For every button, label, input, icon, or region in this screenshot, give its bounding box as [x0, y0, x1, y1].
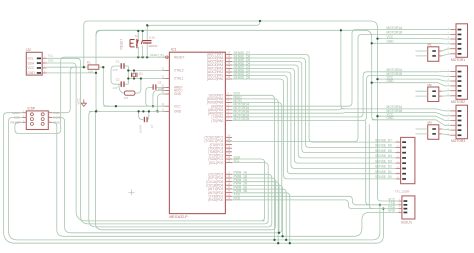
svg-text:I2C: I2C	[26, 48, 32, 52]
junction PD2 at bundle	[289, 242, 291, 244]
svg-text:SENSE_D3: SENSE_D3	[375, 159, 392, 163]
pin (TXD)PD1 (pin 15) of IC1	[225, 195, 232, 197]
pin (ADC0)PA0 (pin 40) of IC1	[225, 78, 232, 80]
wire MOTOR1A from IC PB4 to motor1 row1	[232, 30, 450, 107]
capacitor C1 plates	[121, 63, 122, 69]
junction VCC W1 at y67.2	[83, 66, 85, 68]
wire AREF down loop	[146, 88, 150, 107]
wire XTAL1 from C2 node to IC	[128, 78, 165, 80]
pin (INT1)PD3 (pin 17) of IC1	[225, 188, 232, 190]
pad 3 of TO_LINE	[402, 152, 406, 154]
pin VCC (pin 10) of IC1	[163, 105, 170, 107]
wire RXD from IC to DEBUG	[232, 200, 398, 209]
pin (TOSC1)PC6 (pin 28) of IC1	[225, 140, 232, 142]
connector MOTOR1 body	[456, 24, 468, 58]
svg-text:M3: M3	[428, 121, 432, 125]
svg-text:GND: GND	[388, 209, 396, 213]
junction VCC/MOTOR2	[376, 78, 378, 80]
junction crystal bottom	[133, 77, 135, 79]
pad of MOTOR3	[458, 110, 462, 112]
wire crystal node vertical	[127, 66, 129, 84]
pin (SDA)PC1 (pin 23) of IC1	[225, 158, 232, 160]
svg-text:XTAL2: XTAL2	[174, 69, 184, 73]
pad TXD of DEBUG	[404, 204, 408, 206]
pad of MOTOR1	[458, 29, 462, 31]
svg-text:SENSE_D6: SENSE_D6	[375, 144, 392, 148]
pin (SS)PB4 (pin 5) of IC1	[225, 105, 232, 107]
junction C7 left	[137, 110, 139, 112]
junction VCC/MOTOR3	[376, 115, 378, 117]
junction top rail branch	[340, 29, 342, 31]
wire VCC rail into IC	[103, 105, 165, 107]
svg-text:GND: GND	[387, 79, 395, 83]
wire bundle row y229.8 left riser	[95, 112, 271, 230]
junction C14 rail joins VCC top	[259, 20, 261, 22]
wire spare vertical to RXD row	[369, 124, 373, 208]
svg-text:SCL: SCL	[27, 57, 34, 61]
pin (RXD)PD0 (pin 14) of IC1	[225, 199, 232, 201]
svg-text:RESET: RESET	[10, 120, 20, 124]
wire W3 switch supply	[96, 30, 143, 36]
pin (ICP1)PD6 (pin 20) of IC1	[225, 177, 232, 179]
junction GND pin at GND rail	[156, 110, 158, 112]
capacitor C5 plates on AREF	[153, 84, 154, 89]
pin (ADC6)PA6 (pin 34) of IC1	[225, 57, 232, 59]
connector M1 body	[428, 47, 439, 62]
wire MOTOR1B from IC PC6 to motor1 row2	[232, 34, 450, 141]
pad of MOTOR2	[458, 85, 462, 87]
svg-text:(SCL)PC0: (SCL)PC0	[209, 161, 224, 165]
svg-text:C5: C5	[158, 80, 162, 84]
wire SCK drop from IC to bundle	[232, 95, 275, 240]
junction switch lead B	[141, 30, 143, 32]
svg-text:SENSE_D1: SENSE_D1	[375, 170, 392, 174]
svg-text:RESET: RESET	[120, 39, 124, 50]
wire PD7 from IC down to bundle row 3	[232, 174, 272, 227]
wire SDA from I2C around bottom to IC	[47, 63, 265, 221]
capacitor C14 plates	[143, 40, 152, 41]
wire GND pin y94 riser	[153, 94, 166, 111]
pad VCC of DEBUG	[404, 200, 408, 202]
pad of M1	[432, 50, 436, 52]
pin (TMS)PC3 (pin 25) of IC1	[225, 151, 232, 153]
pad of M2	[432, 95, 436, 97]
wire ICSP VCC riser to VCC net	[52, 67, 76, 113]
svg-text:M2: M2	[428, 83, 432, 87]
pad of MOTOR1	[458, 53, 462, 55]
junction VCC/MOTOR1	[376, 37, 378, 39]
wire MISO drop from IC to bundle	[232, 99, 278, 243]
pad of MOTOR2	[458, 76, 462, 78]
pin (INT0)PD2 (pin 16) of IC1	[225, 192, 232, 194]
wire XTAL2 from C1 node to IC	[128, 70, 165, 72]
pin (T0)PB0 (pin 1) of IC1	[225, 120, 232, 122]
ICSP pin pads row 1	[30, 113, 33, 116]
wire SENSE_D6 from IC PA6 to line connector	[232, 58, 396, 147]
connector M2 body	[428, 87, 439, 102]
wire C1 right lead	[124, 65, 128, 67]
pad GND of DEBUG	[404, 212, 408, 214]
pin (AIN1)PB3 (pin 4) of IC1	[225, 109, 232, 111]
crystal Q1 body	[130, 73, 133, 78]
wire M2 to MOTOR2 pin5	[442, 90, 451, 93]
pin XTAL2 (pin 12) of IC1	[163, 70, 170, 72]
wire SCL from I2C around bottom to IC	[47, 58, 265, 224]
wire SENSE_D2 from IC PA2 to line connector	[232, 72, 396, 168]
wire ICSP GND down to bundle and to DEBUG GND	[52, 122, 398, 236]
svg-text:GND: GND	[174, 110, 182, 114]
junction PD3 at bundle	[285, 239, 287, 241]
junction PD5 at bundle	[278, 232, 280, 234]
wire C14 top lead	[147, 21, 260, 40]
connector SV1 I2C body	[26, 52, 42, 75]
junction switch lead A	[137, 30, 139, 32]
junction PD4 at bundle	[281, 235, 283, 237]
wire SENSE_D5 from IC PA5 to line connector	[232, 62, 396, 153]
pad of MOTOR1	[458, 38, 462, 40]
svg-text:SDA: SDA	[27, 61, 35, 65]
junction MISO at bundle	[277, 242, 279, 244]
wire C14 bottom lead	[146, 43, 148, 57]
junction RESET/switch right	[141, 56, 143, 58]
svg-text:MOTOR2: MOTOR2	[451, 100, 465, 104]
pin (OC1B)PD4 (pin 18) of IC1	[225, 184, 232, 186]
pad of M1	[432, 55, 436, 57]
svg-text:DEBUG: DEBUG	[401, 221, 413, 225]
pin (TDI)PC5 (pin 27) of IC1	[225, 144, 232, 146]
svg-text:1M: 1M	[124, 96, 129, 100]
svg-text:VCC: VCC	[53, 111, 60, 115]
pin (ADC3)PA3 (pin 37) of IC1	[225, 68, 232, 70]
origin cross mark	[128, 189, 134, 195]
pad of MOTOR3	[458, 129, 462, 131]
pad of MOTOR2	[458, 80, 462, 82]
junction R2 right	[140, 77, 142, 79]
svg-text:(RXD)PD0: (RXD)PD0	[208, 198, 223, 202]
svg-text:MOTOR1: MOTOR1	[451, 58, 465, 62]
ICSP pin pads row 3	[30, 122, 33, 125]
wire switch bottom leads	[138, 46, 142, 58]
wire decoupling cap loop	[139, 111, 149, 119]
resistor R1 body	[88, 65, 99, 69]
pin (ADC4)PA4 (pin 36) of IC1	[225, 64, 232, 66]
pin XTAL1 (pin 13) of IC1	[163, 78, 170, 80]
junction decouple mid	[142, 110, 144, 112]
pin (OC2)PD7 (pin 21) of IC1	[225, 173, 232, 175]
svg-text:C14: C14	[149, 36, 155, 40]
junction RESET/switch left	[137, 56, 139, 58]
pin (ADC5)PA5 (pin 35) of IC1	[225, 61, 232, 63]
wire PD6 from IC down to bundle row 4	[232, 178, 275, 230]
svg-text:VCC: VCC	[76, 97, 80, 104]
junction crystal top	[133, 69, 135, 71]
svg-text:C2: C2	[116, 78, 120, 82]
pad 2 of TO_LINE	[402, 147, 406, 149]
pad of MOTOR3	[458, 134, 462, 136]
wire MOTOR3B from IC PB2 to motor3 row2	[232, 113, 450, 116]
svg-text:VCC: VCC	[387, 35, 394, 39]
svg-text:SENSE_D4: SENSE_D4	[375, 154, 392, 158]
pad of MOTOR3	[458, 115, 462, 117]
svg-text:VCC: VCC	[27, 66, 35, 70]
pad of M3	[432, 133, 436, 135]
wire MOTOR2A from IC PB1 to motor2 row1	[232, 72, 450, 117]
pin AREF (pin 32) of IC1	[163, 87, 170, 89]
pad of MOTOR2	[458, 71, 462, 73]
wire TXD from IC to DEBUG	[232, 196, 398, 205]
wire SENSE_D7 from IC PA7 to line connector	[232, 55, 396, 143]
resistor R2 1M leads	[119, 79, 141, 94]
junction XTAL1 node	[127, 77, 129, 79]
wire VCC horizontal y67.2 I2C to R1 to RESET pullup	[47, 66, 104, 68]
junction RESET/C14	[146, 56, 148, 58]
wire crystal left gnd loop	[111, 66, 121, 84]
wire SENSE_D0 from IC PA0 to line connector	[232, 79, 396, 179]
wire PD3 from IC down to bundle row 7	[232, 189, 286, 240]
connector DEBUG body	[402, 196, 415, 219]
wire SENSE_D3 from IC PA3 to line connector	[232, 69, 396, 164]
wire GND branch to MOTOR1	[372, 42, 451, 45]
svg-text:MOTOR1A: MOTOR1A	[387, 26, 404, 30]
wire GND branch to MOTOR2	[372, 83, 451, 86]
wire MOTOR2B from IC PB0 to motor2 row2	[232, 76, 450, 121]
capacitor C7 plates	[144, 117, 145, 122]
pad of MOTOR2	[458, 90, 462, 92]
wire SDA from IC down to bundle row 1	[232, 159, 265, 221]
svg-text:SDA: SDA	[48, 59, 54, 63]
svg-text:TTL_232R: TTL_232R	[395, 190, 410, 194]
svg-text:R1: R1	[87, 60, 91, 64]
svg-text:C1: C1	[116, 59, 120, 63]
pin (OC1A)PD5 (pin 19) of IC1	[225, 181, 232, 183]
junction VCC rail a	[115, 105, 117, 107]
switch S1 RESET pushbutton glyph	[130, 40, 143, 47]
svg-text:GND: GND	[387, 116, 395, 120]
connector MOTOR2 body	[456, 66, 468, 100]
wire VCC branch to MOTOR2	[378, 79, 451, 81]
wire SCL from IC down to bundle row 2	[232, 163, 268, 224]
pad of MOTOR1	[458, 43, 462, 45]
pad of MOTOR2	[458, 95, 462, 97]
wire RESET pullup vertical x103.3	[103, 67, 110, 106]
pin (SCL)PC0 (pin 22) of IC1	[225, 162, 232, 164]
pin (TDO)PC4 (pin 26) of IC1	[225, 147, 232, 149]
junction GND/MOTOR1	[371, 42, 373, 44]
junction C14 top corner	[146, 24, 148, 26]
junction XTAL2 node	[127, 69, 129, 71]
pin (AIN0)PB2 (pin 3) of IC1	[225, 112, 232, 114]
junction AVCC at VCC rail	[152, 105, 154, 107]
junction RXD riser at DEBUG	[382, 207, 384, 209]
wire AREF cap lead	[149, 87, 165, 89]
svg-text:100NF: 100NF	[139, 124, 143, 133]
wire M2 feeders from left	[416, 91, 428, 96]
junction TXD riser at DEBUG	[379, 204, 381, 206]
wire vertical branch from GND top rail to motor3 row jog	[341, 30, 345, 109]
wire M1 to MOTOR1 pin6	[442, 54, 451, 56]
junction GND W2 at rail	[95, 110, 97, 112]
wire SENSE_D1 from IC PA1 to line connector	[232, 76, 396, 174]
svg-text:SCL: SCL	[48, 54, 54, 58]
svg-text:GND: GND	[387, 40, 395, 44]
svg-text:VCC: VCC	[174, 104, 181, 108]
pin AVCC (pin 30) of IC1	[163, 90, 170, 92]
pad of MOTOR3	[458, 120, 462, 122]
ICSP pin pads row 2	[30, 118, 33, 121]
svg-text:Q1: Q1	[139, 72, 143, 76]
junction bundle GND riser	[95, 110, 97, 112]
svg-text:SENSE_D2: SENSE_D2	[375, 165, 392, 169]
wire PD5 from IC down to bundle row 5	[232, 182, 279, 233]
pad 6 of TO_LINE	[402, 168, 406, 170]
svg-text:SENSE_D0: SENSE_D0	[375, 175, 392, 179]
wire VCC top rail W1	[84, 21, 399, 201]
junction C7 right	[148, 110, 150, 112]
pin (MISO)PB6 (pin 7) of IC1	[225, 98, 232, 100]
junction GND/MOTOR2	[371, 82, 373, 84]
svg-text:GND: GND	[27, 71, 35, 75]
resistor R2 body	[124, 91, 134, 95]
wire M1 to MOTOR1 pin5	[442, 49, 451, 51]
pin GND (pin 11) of IC1	[163, 110, 170, 112]
svg-text:XTAL1: XTAL1	[174, 77, 184, 81]
wire PD2 from IC down to bundle row 8	[232, 193, 290, 243]
svg-text:IC1: IC1	[171, 48, 177, 52]
pad 4 of TO_LINE	[402, 157, 406, 159]
pin (TCK)PC2 (pin 24) of IC1	[225, 154, 232, 156]
svg-text:(ADC0)PA0: (ADC0)PA0	[207, 77, 224, 81]
pin (ADC1)PA1 (pin 39) of IC1	[225, 75, 232, 77]
pad of M2	[432, 90, 436, 92]
svg-text:SENSE_D5: SENSE_D5	[375, 149, 392, 153]
wire SCK left loop to IC	[9, 118, 380, 240]
svg-text:22P: 22P	[113, 68, 118, 72]
pad 7 of TO_LINE	[402, 173, 406, 175]
svg-text:RESET_B: RESET_B	[150, 53, 162, 57]
svg-text:S1: S1	[135, 34, 139, 38]
wire M2 to MOTOR2 pin6	[442, 95, 451, 97]
pad 8 of TO_LINE	[402, 178, 406, 180]
pin (TOSC2)PC7 (pin 29) of IC1	[225, 136, 232, 138]
wire GND branch to MOTOR3	[372, 120, 451, 126]
pad of MOTOR3	[458, 125, 462, 127]
wire C2 right lead	[124, 83, 128, 85]
svg-text:MOTOR3: MOTOR3	[451, 139, 465, 143]
svg-text:ICSP: ICSP	[28, 107, 36, 111]
svg-text:GND: GND	[174, 92, 182, 96]
pin (T1)PB1 (pin 2) of IC1	[225, 116, 232, 118]
wire M3 to MOTOR3 pin6	[442, 134, 451, 135]
wire AVCC from VCC rail	[153, 91, 166, 107]
VCC supply arrow symbol	[81, 100, 86, 107]
pad 1 of TO_LINE	[402, 141, 406, 143]
junction SCK at bundle	[273, 239, 275, 241]
svg-text:(T0)PB0: (T0)PB0	[211, 119, 223, 123]
wire SENSE_D4 from IC PA4 to line connector	[232, 65, 396, 158]
pad of MOTOR1	[458, 34, 462, 36]
wire bundle row y226.9 left riser to GND rail	[89, 111, 268, 226]
svg-text:SENSE_D7: SENSE_D7	[375, 138, 392, 142]
capacitor C2 plates	[121, 81, 122, 87]
wire M1 feeders from left	[416, 51, 428, 56]
wire I2C GND to W2	[47, 72, 97, 74]
crystal Q1 leads	[133, 71, 135, 79]
connector M3 body	[428, 125, 439, 140]
pin RESET (pin 9) of IC1	[163, 56, 170, 58]
junction pullup top	[102, 66, 104, 68]
wire RESET net from IC to switch and around to ICSP	[15, 57, 166, 133]
wire switch top to GND wire W3	[138, 31, 142, 40]
wire M3 to MOTOR3 pin5	[442, 129, 451, 130]
wire PD4 from IC down to bundle row 6	[232, 185, 283, 236]
wire GND rail into IC	[89, 110, 166, 112]
connector TO_LINE body	[401, 137, 415, 183]
pin (SCK)PB7 (pin 8) of IC1	[225, 94, 232, 96]
svg-text:RESET: RESET	[174, 55, 185, 59]
svg-text:M1: M1	[428, 43, 432, 47]
wire MISO big left loop to IC	[4, 113, 384, 244]
connector MOTOR3 body	[456, 105, 468, 139]
pin (MOSI)PB5 (pin 6) of IC1	[225, 102, 232, 104]
wire M3 feeders from left	[416, 129, 428, 134]
connector ICSP body	[26, 111, 48, 130]
wire MOTOR3A from IC PB3 to motor3 row1	[232, 109, 450, 111]
pad of M3	[432, 128, 436, 130]
junction I2C GND at W2	[95, 72, 97, 74]
RESET pin inversion bubble	[166, 56, 169, 59]
pin (ADC2)PA2 (pin 38) of IC1	[225, 71, 232, 73]
svg-text:100NF: 100NF	[148, 44, 157, 48]
svg-text:C7: C7	[150, 124, 154, 128]
wire MOSI from ICSP down to bundle to IC	[52, 103, 281, 233]
pin GND (pin 31) of IC1	[163, 93, 170, 95]
microcontroller IC1 body	[169, 52, 225, 213]
pad of MOTOR1	[458, 48, 462, 50]
wire spare vertical to TXD row	[366, 121, 370, 205]
pad RXD of DEBUG	[404, 208, 408, 210]
svg-text:22P: 22P	[113, 86, 118, 90]
pin (ADC7)PA7 (pin 33) of IC1	[225, 54, 232, 56]
wire GND top rail W2	[96, 30, 377, 120]
pad 5 of TO_LINE	[402, 162, 406, 164]
svg-text:MEGA32-P: MEGA32-P	[169, 215, 188, 219]
wire VCC branch to MOTOR1	[378, 38, 451, 40]
wire VCC branch to MOTOR3	[378, 116, 451, 120]
